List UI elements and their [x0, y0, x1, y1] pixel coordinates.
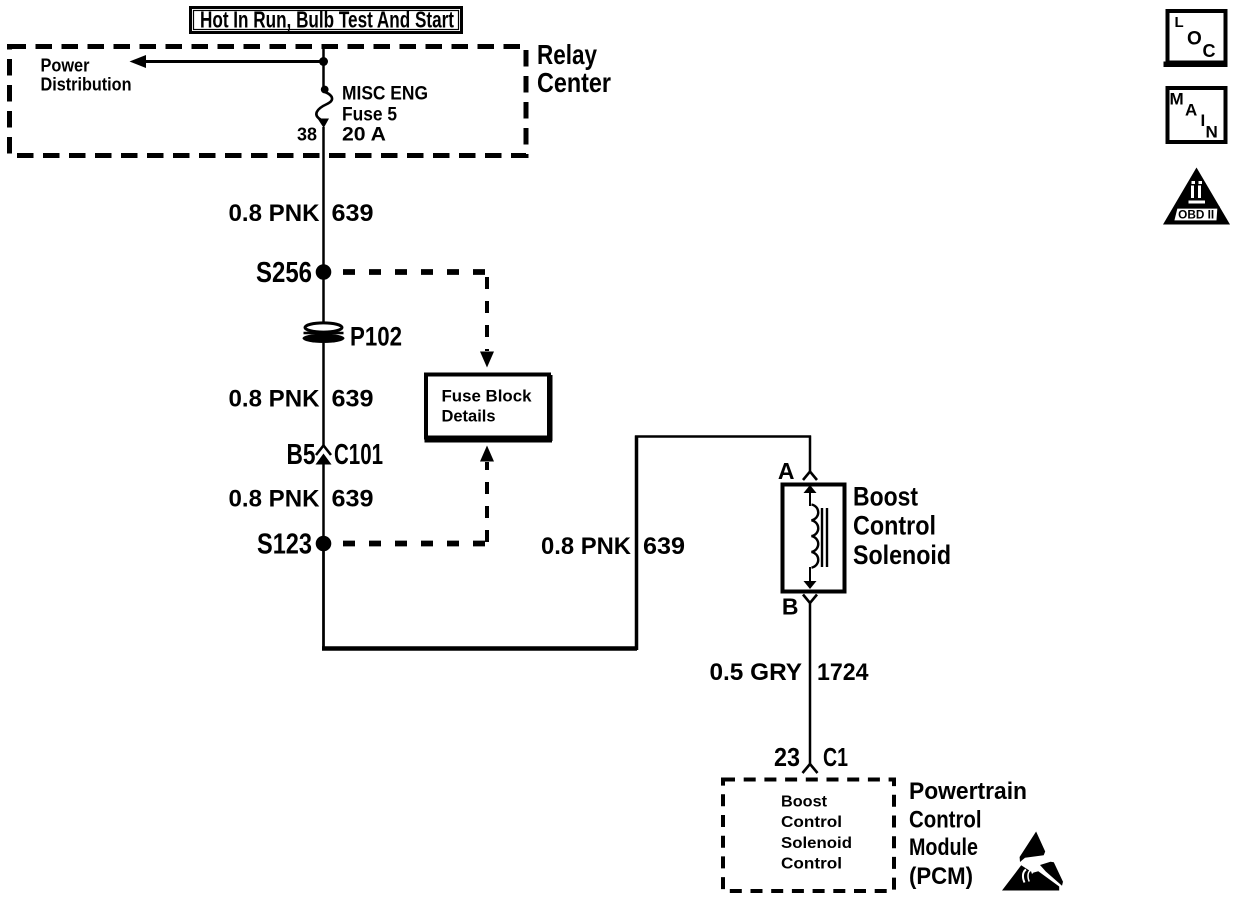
banner box "Hot In Run, Bulb Test And Start" [191, 7, 462, 33]
node Boost Control Solenoid Control [781, 794, 852, 873]
wire label 0.8 PNK 639 (2) [229, 386, 374, 413]
ESD warning symbol [1002, 832, 1063, 891]
svg-text:Boost: Boost [781, 794, 828, 811]
svg-text:M: M [1170, 90, 1184, 109]
svg-text:Powertrain: Powertrain [909, 778, 1027, 805]
svg-text:Power: Power [41, 56, 90, 76]
dashed wire S123 up to fuse block details [343, 446, 494, 544]
PCM dashed box [723, 780, 894, 892]
svg-text:0.5 GRY: 0.5 GRY [710, 659, 803, 686]
wire: vertical drop from box top [322, 44, 325, 87]
svg-text:Relay: Relay [537, 39, 597, 70]
svg-text:P102: P102 [350, 322, 402, 352]
svg-text:639: 639 [643, 533, 685, 560]
svg-text:B5: B5 [287, 439, 316, 471]
svg-text:Control: Control [853, 511, 936, 541]
svg-text:Control: Control [781, 856, 842, 873]
icon OBD II triangle [1163, 168, 1230, 225]
icon LOC box [1164, 11, 1228, 64]
svg-text:S123: S123 [257, 529, 312, 561]
svg-text:Hot In Run, Bulb Test And Star: Hot In Run, Bulb Test And Start [200, 7, 454, 33]
svg-text:0.8 PNK: 0.8 PNK [229, 486, 321, 513]
svg-text:20 A: 20 A [342, 125, 386, 146]
wire: arrow to power distribution [130, 55, 324, 68]
svg-text:A: A [1185, 101, 1197, 120]
svg-text:O: O [1187, 29, 1202, 50]
svg-text:Solenoid: Solenoid [853, 540, 951, 570]
svg-text:639: 639 [332, 386, 374, 413]
wire label 0.8 PNK 639 (1) [229, 200, 374, 227]
svg-text:Control: Control [909, 807, 982, 834]
svg-text:S256: S256 [256, 257, 312, 289]
label Relay Center [537, 39, 611, 98]
connector P102 [303, 322, 403, 352]
fuse F5 MISC ENG Fuse 5 20 A [316, 86, 332, 128]
wire: bottom routing S123 to solenoid [322, 436, 811, 651]
svg-text:OBD II: OBD II [1178, 210, 1214, 222]
node: junction dot at arrow [319, 57, 328, 66]
label Boost Control Solenoid [853, 482, 951, 571]
svg-text:Control: Control [781, 814, 842, 831]
wire label 0.8 PNK 639 (4) [541, 533, 685, 560]
svg-text:0.8 PNK: 0.8 PNK [229, 200, 321, 227]
svg-text:1724: 1724 [817, 659, 869, 686]
svg-text:Center: Center [537, 67, 611, 98]
svg-text:A: A [778, 458, 795, 484]
boost control solenoid L1 [778, 458, 845, 620]
wire: solenoid B down to PCM [809, 604, 812, 765]
svg-text:C1: C1 [823, 742, 848, 772]
label Powertrain Control Module (PCM) [909, 778, 1027, 890]
connector C1 pin 23 [774, 742, 848, 773]
wire label 0.8 PNK 639 (3) [229, 486, 374, 513]
svg-text:0.8 PNK: 0.8 PNK [541, 533, 632, 560]
svg-text:Fuse Block: Fuse Block [442, 387, 533, 406]
label Power Distribution [41, 56, 132, 95]
svg-text:C: C [1203, 41, 1216, 61]
dashed wire S256 to fuse block details [343, 272, 494, 368]
svg-text:Fuse 5: Fuse 5 [342, 105, 397, 126]
svg-text:B: B [782, 594, 799, 620]
svg-text:C101: C101 [334, 439, 383, 471]
svg-text:Details: Details [442, 407, 496, 426]
svg-text:(PCM): (PCM) [909, 863, 973, 890]
relay center dashed box [10, 47, 527, 156]
svg-text:Module: Module [909, 834, 978, 861]
splice S123 [257, 529, 331, 561]
splice S256 [256, 257, 331, 289]
svg-text:L: L [1175, 14, 1184, 31]
wire: P102 down to bottom corner [322, 343, 325, 446]
fuse value label MISC ENG Fuse 5 20 A [342, 84, 428, 146]
icon MAIN box [1168, 88, 1226, 142]
svg-text:MISC ENG: MISC ENG [342, 84, 428, 105]
fuse block details box [425, 375, 553, 442]
svg-text:Solenoid: Solenoid [781, 835, 852, 852]
svg-text:0.8 PNK: 0.8 PNK [229, 386, 321, 413]
connector C101 pin B5 [287, 439, 384, 471]
svg-text:639: 639 [332, 200, 374, 227]
wire label 0.5 GRY 1724 [710, 659, 870, 686]
svg-text:N: N [1206, 123, 1218, 142]
svg-text:Distribution: Distribution [41, 75, 132, 95]
svg-text:Boost: Boost [853, 482, 918, 512]
svg-text:38: 38 [297, 125, 317, 145]
svg-text:23: 23 [774, 742, 800, 772]
svg-text:639: 639 [332, 486, 374, 513]
wire: fuse down to P102 [322, 127, 325, 324]
